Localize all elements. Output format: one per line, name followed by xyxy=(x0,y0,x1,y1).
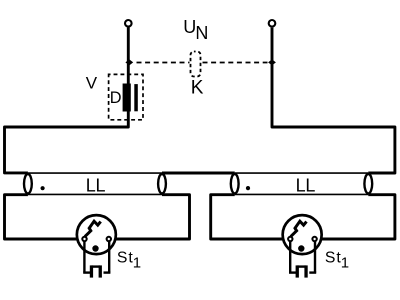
starter1 right contact xyxy=(107,237,111,241)
lamp LL2 tube outline xyxy=(235,173,369,194)
starter2 glow dot xyxy=(298,245,304,251)
starter1 pin 1 xyxy=(90,265,93,277)
ballast V dashed box xyxy=(109,74,143,119)
lamp1 right electrode xyxy=(158,174,166,193)
lamp2 cathode dot xyxy=(246,186,250,190)
wire: left supply drop from terminal to choke xyxy=(127,28,130,84)
starter2 left contact xyxy=(288,237,292,241)
lamp2 left electrode xyxy=(231,174,239,193)
starter2 bimetal zigzag electrode xyxy=(291,221,307,236)
starter2 base housing xyxy=(289,239,316,273)
wire: choke bottom to left bus down to lamp 1 top-left pin xyxy=(5,111,129,173)
lamp2 right electrode xyxy=(364,174,372,193)
starter1 pin 2 xyxy=(99,265,102,277)
wire: series link lamp1 right electrode to lamp2 left electrode xyxy=(162,172,235,175)
svg-text:K: K xyxy=(191,78,204,99)
svg-text:V: V xyxy=(86,74,98,93)
lamp1 left electrode xyxy=(24,174,32,193)
dashed mains line to compensation capacitor K xyxy=(137,62,268,64)
lamp1 cathode dot xyxy=(41,186,45,190)
choke D winding (filled) xyxy=(123,84,131,112)
svg-text:1: 1 xyxy=(341,255,349,272)
svg-text:U: U xyxy=(183,17,196,37)
wire: lamp2 right bottom pin down to starter 2 right contact xyxy=(315,195,395,239)
starter1 bimetal zigzag electrode xyxy=(85,221,101,236)
lamp LL1 tube outline xyxy=(28,173,162,194)
starter1 bulb circle xyxy=(77,215,116,254)
terminal right xyxy=(269,20,276,27)
starter2 right contact xyxy=(312,237,316,241)
svg-text:St: St xyxy=(117,250,134,267)
svg-text:1: 1 xyxy=(133,255,141,272)
starter1 left contact xyxy=(82,237,86,241)
starter2 pin 2 xyxy=(304,265,307,277)
svg-text:LL: LL xyxy=(86,176,106,196)
starter St1 (right) xyxy=(283,215,322,277)
wire: right supply drop and right bus to lamp 2 top xyxy=(272,28,395,173)
svg-text:N: N xyxy=(195,23,208,43)
choke D core bar xyxy=(134,84,138,111)
starter2 pin 1 xyxy=(296,265,299,277)
wire: lamp2 left bottom pin down to starter 2 left contact xyxy=(211,195,291,239)
starter1 glow dot xyxy=(92,245,98,251)
starter2 bulb circle xyxy=(283,215,322,254)
node: junction dot left xyxy=(125,59,133,65)
wire: lamp1 right bottom pin down to starter 1 right contact xyxy=(109,195,190,239)
node: junction dot right xyxy=(268,59,276,65)
capacitor K dashed outline xyxy=(191,52,201,77)
starter1 base housing xyxy=(83,239,110,273)
svg-text:D: D xyxy=(110,89,122,107)
svg-text:LL: LL xyxy=(296,176,316,196)
terminal left xyxy=(125,20,132,27)
starter St1 (left) xyxy=(77,215,116,277)
svg-text:St: St xyxy=(325,250,342,267)
wire: lamp1 left bottom pin down-around to starter 1 left contact xyxy=(5,195,85,239)
